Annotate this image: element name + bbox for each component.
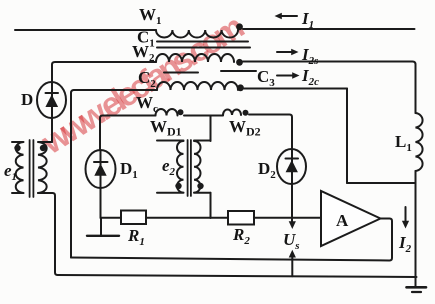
wire WD1 to WD2: [184, 115, 223, 117]
transformer e2 core: [187, 140, 189, 196]
watermark www.elecfans.com: [35, 9, 250, 162]
ground under D1: [100, 218, 102, 235]
inductor L1: [416, 113, 423, 171]
wire R2 to amplifier: [254, 217, 321, 219]
resistor R2: [228, 211, 254, 225]
transformer e1 core: [29, 140, 31, 197]
dot e1 left: [14, 145, 20, 151]
diode D2 circle: [277, 149, 306, 184]
winding W2: [156, 54, 234, 62]
dot W2: [236, 59, 243, 66]
wire from node above D to W2: [52, 62, 156, 82]
diode D1 circle: [86, 150, 116, 188]
diode D1 triangle: [94, 164, 106, 176]
amplifier A triangle: [321, 191, 381, 246]
Us lower arrow vertical: [291, 256, 293, 276]
arrowhead I2 down: [402, 221, 409, 229]
arrow I2s line: [277, 51, 293, 53]
diode D cathode bar: [46, 92, 59, 94]
arrow I1 line: [280, 15, 297, 17]
winding Wc: [157, 82, 238, 90]
wire top line left of W1: [15, 29, 156, 31]
arrowhead Us up: [289, 250, 296, 258]
diode D1 cathode bar: [94, 161, 108, 163]
dot Wc: [237, 84, 244, 91]
Us arrow wire down: [291, 184, 293, 222]
wire amplifier output: [71, 219, 392, 261]
dot W1: [236, 23, 243, 30]
dot e1 right: [40, 145, 46, 151]
dot WD2: [243, 110, 249, 116]
diode D2 wire through: [291, 150, 293, 184]
wire W2 to right vertical: [243, 62, 416, 114]
dot e2 left: [175, 183, 181, 189]
capacitor C2 plate: [164, 72, 198, 74]
transformer e2 right winding: [194, 141, 211, 193]
arrow I2 line: [405, 207, 407, 223]
diode D wire through: [51, 82, 53, 142]
wire L1 bottom: [347, 182, 416, 184]
wire top line right of W1: [243, 28, 415, 30]
wire WD2 to D2 branch: [249, 115, 292, 151]
wire WD row left with vertical to D1: [100, 116, 156, 151]
wire Wc to C3 branch: [244, 88, 347, 90]
wire e1 bottom to outer rail: [38, 193, 417, 277]
diode D2 cathode bar: [286, 158, 299, 160]
dot WD1: [178, 109, 184, 115]
capacitor C1 plates: [157, 41, 248, 43]
transformer e1 right winding: [38, 142, 52, 193]
diode D triangle: [45, 95, 58, 108]
arrowhead I2c: [292, 72, 299, 78]
wire e2 mid vertical top: [210, 116, 212, 142]
transformer e1 left winding: [12, 142, 24, 193]
ground right bar: [407, 286, 427, 289]
svg-text:D: D: [21, 90, 33, 109]
capacitor C3 plate: [221, 70, 256, 72]
dot e2 right: [197, 183, 203, 189]
wire e2 mid vertical bottom: [210, 193, 212, 218]
wire R1 to R2: [146, 217, 228, 219]
wire D1 node to R1: [101, 217, 121, 219]
right vertical rail: [415, 171, 417, 287]
winding W1: [156, 30, 238, 38]
transformer e2 left winding: [157, 141, 184, 193]
arrow I2c line: [277, 75, 294, 77]
winding WD1: [156, 109, 178, 115]
diode D2 triangle: [286, 160, 298, 172]
arrowhead I2s: [291, 49, 298, 55]
arrowhead Us down: [289, 221, 296, 229]
svg-text:A: A: [336, 211, 349, 230]
ground right ticks: [412, 291, 421, 293]
resistor R1: [121, 211, 146, 225]
winding WD2: [223, 110, 241, 115]
diode D1 wire through: [100, 150, 102, 218]
arrowhead I1: [275, 13, 282, 19]
wire C3 branch vertical: [346, 89, 348, 184]
wire left vertical from Wc row down to bottom inner rail: [71, 90, 74, 258]
diode D circle: [37, 82, 66, 118]
